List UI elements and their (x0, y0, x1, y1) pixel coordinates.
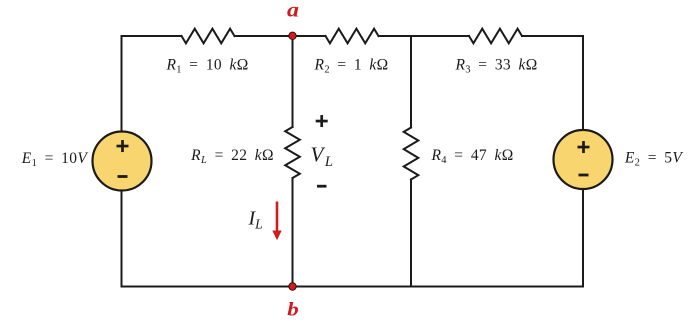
svg-text:a: a (287, 1, 299, 22)
wire right branch upper (582, 36, 584, 130)
node a dot (289, 32, 296, 39)
wire left branch upper (121, 36, 123, 132)
wire middle branch: RL to node b (292, 178, 294, 287)
svg-text:R1 = 10 kΩ: R1 = 10 kΩ (165, 57, 248, 76)
wire top-right segment (522, 35, 583, 37)
voltage source E2 plus sign (578, 141, 590, 153)
label VL minus sign (317, 185, 327, 188)
voltage source E1 circle (93, 132, 152, 191)
wire R4 branch upper (410, 36, 412, 128)
label VL plus sign (316, 115, 328, 127)
voltage source E1 plus sign (117, 140, 129, 152)
current IL arrow (272, 202, 281, 241)
wire top: node a to R2 (293, 35, 326, 37)
voltage source E2 circle (554, 130, 613, 189)
svg-text:VL: VL (311, 143, 333, 171)
wire middle branch: node a to RL (292, 36, 294, 127)
wire bottom (122, 286, 584, 288)
resistor R4 zigzag (404, 128, 419, 180)
resistor R3 zigzag (469, 29, 522, 44)
wire left branch lower (121, 191, 123, 287)
svg-text:E1 = 10V: E1 = 10V (21, 150, 89, 169)
svg-text:b: b (287, 301, 299, 321)
wire top: R2 to R3 (through R4 junction) (379, 35, 470, 37)
voltage source E2 minus sign (579, 174, 589, 177)
svg-text:RL = 22 kΩ: RL = 22 kΩ (190, 147, 274, 166)
svg-text:R4 = 47 kΩ: R4 = 47 kΩ (430, 147, 513, 166)
wire R4 branch lower (410, 180, 412, 287)
resistor R2 zigzag (326, 29, 379, 44)
svg-text:R3 = 33 kΩ: R3 = 33 kΩ (454, 57, 537, 76)
svg-text:IL: IL (248, 208, 263, 232)
node b dot (289, 283, 296, 290)
resistor RL zigzag (285, 127, 300, 178)
svg-text:E2 = 5V: E2 = 5V (624, 150, 683, 169)
resistor R1 zigzag (182, 29, 235, 44)
wire top: R1 to node a (235, 35, 293, 37)
voltage source E1 minus sign (118, 175, 128, 178)
wire top-left segment (122, 35, 182, 37)
wire right branch lower (582, 189, 584, 287)
svg-text:R2 = 1 kΩ: R2 = 1 kΩ (313, 57, 388, 76)
